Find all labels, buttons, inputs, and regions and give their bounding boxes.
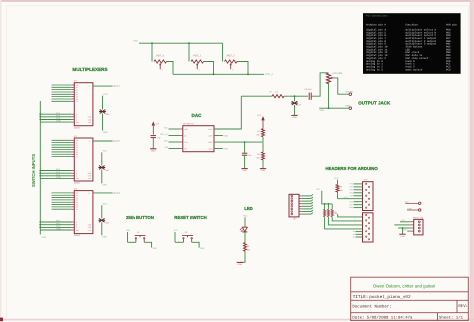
svg-text:VCC: VCC bbox=[133, 40, 138, 43]
svg-text:VCC: VCC bbox=[405, 201, 410, 204]
svg-text:10k: 10k bbox=[334, 212, 337, 215]
wire LED1 to R8 bbox=[244, 232, 246, 243]
wire JP2 pin nets with labels bbox=[349, 183, 363, 210]
svg-text:OUTPUT JACK: OUTPUT JACK bbox=[358, 100, 391, 105]
svg-text:2: 2 bbox=[199, 68, 200, 71]
title block frame and text bbox=[351, 277, 469, 320]
wire bar to R11 top bbox=[327, 204, 329, 210]
capacitor C4 0.1uF plates bbox=[151, 136, 156, 138]
junction dot at POT_0 feed bbox=[151, 42, 153, 44]
wire R10 to JP3 row bbox=[325, 217, 363, 229]
svg-text:VCC: VCC bbox=[257, 114, 262, 117]
wire JP4 pin3 GND bbox=[398, 227, 410, 229]
potentiometer POT_1 wiper arrow bbox=[196, 63, 198, 69]
resistor R6 lower bbox=[262, 152, 265, 160]
wire bar to R12 top bbox=[331, 204, 333, 210]
junction dot JP4 gnd bbox=[402, 227, 404, 229]
wire junction to ground JP4 bbox=[402, 228, 404, 234]
svg-text:INT1: INT1 bbox=[344, 196, 348, 199]
svg-text:GND: GND bbox=[242, 169, 247, 172]
wire JP1 pin nets with hooks bbox=[299, 194, 313, 214]
ground symbol at R6 bbox=[260, 168, 266, 170]
svg-text:VCC: VCC bbox=[243, 214, 248, 217]
svg-text:Arduino pin #: Arduino pin # bbox=[366, 23, 386, 26]
svg-text:DAC: DAC bbox=[192, 113, 203, 118]
resistor R12 pull bbox=[331, 209, 333, 216]
svg-text:A0: A0 bbox=[353, 230, 355, 233]
svg-text:REV:: REV: bbox=[458, 304, 468, 309]
ground symbol at C5 bbox=[241, 168, 247, 170]
svg-text:GND: GND bbox=[56, 120, 61, 123]
wire R6 to ground bbox=[262, 160, 264, 168]
pin names IC1 A/B/C/INH bbox=[76, 113, 80, 124]
potentiometer VOLUME wiper arrow bbox=[330, 77, 335, 79]
wire POT_1 right terminal down bbox=[204, 62, 214, 75]
wire capacitor C3 to GND bbox=[101, 222, 103, 235]
junction dot POT_1 bottom bbox=[213, 73, 215, 75]
wire R7 to C6 junction bbox=[284, 95, 308, 97]
wire VCC drop to POT_0 bbox=[151, 43, 153, 61]
potentiometer POT_2 element bbox=[225, 60, 237, 63]
capacitor C1 10uF (polarized) bbox=[99, 110, 106, 114]
svg-text:MCP4921-E: MCP4921-E bbox=[183, 122, 195, 125]
wire VCC to R9 bbox=[337, 180, 339, 185]
wire R9 to JP2 pin bbox=[337, 192, 339, 199]
svg-text:Sheet: 1/1: Sheet: 1/1 bbox=[439, 315, 464, 320]
svg-text:GND: GND bbox=[261, 169, 266, 172]
svg-text:GND: GND bbox=[103, 131, 108, 134]
svg-text:R5: R5 bbox=[257, 130, 259, 133]
svg-text:AVR pin: AVR pin bbox=[446, 23, 457, 26]
wire capacitor C1 to GND bbox=[102, 114, 104, 131]
svg-text:PD0: PD0 bbox=[350, 183, 354, 186]
svg-text:LED: LED bbox=[244, 206, 253, 211]
svg-text:SCK: SCK bbox=[164, 140, 169, 143]
resistor R10 pull bbox=[324, 209, 326, 216]
svg-text:20k: 20k bbox=[257, 157, 260, 160]
svg-text:HEADERS FOR ARDUINO: HEADERS FOR ARDUINO bbox=[325, 166, 378, 171]
wire U2 VREF net bbox=[214, 141, 262, 143]
wire JP4 pin1 VCC bbox=[400, 221, 410, 223]
svg-text:RESET SWITCH: RESET SWITCH bbox=[174, 215, 206, 220]
svg-text:analog in 3: analog in 3 bbox=[366, 68, 383, 71]
svg-text:DAC_CS: DAC_CS bbox=[160, 133, 169, 136]
pin VCC single bbox=[419, 202, 421, 204]
svg-text:VCC: VCC bbox=[103, 203, 108, 206]
svg-text:PD7: PD7 bbox=[350, 203, 354, 206]
junction dots on bus at IC3 selects bbox=[39, 221, 41, 228]
svg-text:SOUND: SOUND bbox=[345, 90, 353, 93]
junction dot volume gnd bbox=[328, 107, 330, 109]
svg-text:GND: GND bbox=[345, 104, 350, 107]
svg-text:10k: 10k bbox=[340, 189, 343, 192]
svg-text:GND: GND bbox=[200, 247, 205, 250]
ground symbol at LED1 bbox=[237, 261, 243, 263]
junction dot bar a bbox=[324, 203, 326, 205]
wire to GND pin bbox=[407, 209, 419, 211]
connector JP1 body bbox=[289, 194, 299, 217]
resistor R5 upper bbox=[262, 129, 265, 137]
capacitor C3 10uF (polarized) bbox=[98, 218, 105, 222]
wire bar to R10 top bbox=[324, 204, 326, 210]
wire capacitor C2 to GND bbox=[101, 170, 103, 184]
connector JP3 body bbox=[363, 213, 374, 242]
svg-text:TITLE:: TITLE: bbox=[353, 295, 368, 300]
wire VOLUME wiper to SOUND pin bbox=[335, 78, 349, 94]
power symbol VCC arrow at C4 bbox=[152, 121, 155, 134]
wire POT_2 right terminal down bbox=[237, 62, 248, 75]
wire JP4 pin2 bbox=[394, 224, 410, 226]
wire VREF junction to C5 bbox=[244, 142, 246, 153]
wire GND rail to GND pin bbox=[319, 107, 349, 109]
svg-text:VCC: VCC bbox=[316, 188, 321, 191]
pin names U2 right bbox=[208, 128, 214, 151]
wire JP4 pin4 bbox=[407, 230, 410, 232]
wire to VCC pin bbox=[405, 202, 418, 204]
wire C6 to volume pot bbox=[311, 73, 328, 96]
potentiometer POT_0 wiper arrow bbox=[159, 63, 161, 69]
pin stubs JP4 bbox=[410, 222, 414, 231]
pin names IC1 VDD/VEE/VSS bbox=[88, 116, 92, 124]
capacitor C5 1uF plates bbox=[242, 153, 247, 155]
wire select bus vertical bbox=[39, 101, 41, 235]
wire select nets A/B/C/INH to IC2 bbox=[40, 168, 74, 179]
svg-text:mode switch: mode switch bbox=[406, 68, 423, 71]
svg-text:20k: 20k bbox=[257, 133, 260, 136]
svg-text:VCC: VCC bbox=[103, 150, 108, 153]
svg-text:GND: GND bbox=[56, 228, 61, 231]
svg-text:VCC: VCC bbox=[401, 219, 406, 222]
potentiometer POT_0 element bbox=[154, 60, 166, 63]
capacitor C6 series plates bbox=[309, 93, 311, 100]
wire POT_0 right terminal down bbox=[167, 62, 174, 75]
svg-text:PD4: PD4 bbox=[350, 191, 354, 194]
connector JP2 body bbox=[363, 182, 374, 211]
svg-text:R8: R8 bbox=[247, 245, 249, 248]
svg-text:OUT2: OUT2 bbox=[113, 140, 120, 143]
value label R9 10k bbox=[340, 186, 343, 192]
multiplexer IC2 4051N body bbox=[74, 138, 93, 181]
svg-text:PD2: PD2 bbox=[350, 188, 354, 191]
svg-text:LDAC: LDAC bbox=[208, 147, 213, 150]
svg-text:POT_0: POT_0 bbox=[156, 54, 165, 57]
pin names IC3 X0-X7 bbox=[76, 192, 78, 211]
pin names IC3 A/B/C/INH bbox=[76, 221, 80, 232]
pin names IC1 X0-X7 bbox=[76, 84, 78, 103]
wire U2 LDAC to GND bbox=[214, 148, 223, 150]
junction dot bar b bbox=[328, 203, 330, 205]
pin names IC3 VDD/VEE/VSS bbox=[88, 224, 92, 232]
svg-text:S2: S2 bbox=[185, 231, 187, 234]
svg-text:VREF: VREF bbox=[208, 141, 213, 144]
svg-text:R6: R6 bbox=[257, 153, 259, 156]
wire VCC drop to POT_1 bbox=[188, 43, 190, 61]
svg-text:Document Number:: Document Number: bbox=[352, 304, 391, 309]
pin GND (output jack) bbox=[349, 107, 352, 110]
svg-text:Pin Connections: Pin Connections bbox=[366, 15, 388, 18]
value label R8 330 bbox=[247, 245, 250, 252]
svg-text:S1: S1 bbox=[137, 231, 139, 234]
pin pads JP2 bbox=[366, 183, 370, 208]
svg-text:VCC: VCC bbox=[103, 93, 108, 96]
svg-text:A2: A2 bbox=[353, 236, 355, 239]
capacitor C2 10uF (polarized) bbox=[98, 166, 105, 170]
svg-text:PC3: PC3 bbox=[446, 68, 451, 71]
svg-text:2: 2 bbox=[232, 68, 233, 71]
svg-text:GND: GND bbox=[151, 149, 156, 152]
resistor R7 series bbox=[272, 95, 284, 98]
LED LED1 bbox=[240, 227, 247, 232]
wire select nets A/B/C/INH to IC3 bbox=[40, 220, 74, 231]
wire C7 to ground bbox=[294, 105, 296, 115]
pin pads JP1 bbox=[291, 195, 293, 215]
wire VCC to capacitor C1 bbox=[102, 96, 104, 110]
wire VCC feed to pull resistor bar bbox=[322, 191, 332, 204]
wire JP3 lower pin nets bbox=[353, 230, 363, 238]
svg-text:GND: GND bbox=[319, 109, 324, 112]
resistor R9 bbox=[336, 185, 339, 193]
capacitor C7 1uF (polarized) bbox=[291, 101, 298, 105]
svg-text:GND: GND bbox=[407, 207, 412, 210]
wire VREF node down to R6 bbox=[262, 142, 264, 152]
potentiometer POT_1 element bbox=[191, 60, 203, 63]
svg-text:Owen Osborn, critter and guita: Owen Osborn, critter and guitari bbox=[373, 284, 435, 289]
svg-text:OUT1: OUT1 bbox=[113, 85, 120, 88]
wire VCC to capacitor C2 bbox=[101, 152, 103, 165]
svg-text:GND: GND bbox=[349, 206, 354, 209]
wire R8 to ground bbox=[240, 251, 245, 262]
pin SOUND (output jack) bbox=[349, 93, 352, 96]
wire R11 to JP3 row bbox=[328, 217, 362, 225]
wire junction down to C7 bbox=[294, 96, 296, 101]
svg-text:Function: Function bbox=[406, 23, 419, 26]
svg-text:POT_1: POT_1 bbox=[193, 54, 202, 57]
svg-text:Date: 5/08/2008 11:04:47a: Date: 5/08/2008 11:04:47a bbox=[352, 316, 413, 321]
svg-text:A1: A1 bbox=[353, 233, 355, 236]
svg-text:SDI: SDI bbox=[165, 146, 169, 149]
wire R5 to VREF node bbox=[262, 137, 264, 142]
wire switch input bundle to IC2 (8 nets X0-X7) bbox=[52, 140, 75, 156]
junction dots on bus at IC1 selects bbox=[39, 113, 41, 120]
wire switch input bundle to IC1 (8 nets X0-X7) bbox=[52, 85, 75, 101]
ground symbol at C7 bbox=[291, 114, 297, 116]
svg-text:OUT3: OUT3 bbox=[113, 192, 120, 195]
svg-text:GND: GND bbox=[56, 176, 61, 179]
svg-text:GND: GND bbox=[224, 134, 229, 137]
svg-text:GND: GND bbox=[102, 184, 107, 187]
svg-text:GND: GND bbox=[292, 116, 297, 119]
junction dot POT_2 bottom bbox=[247, 73, 249, 75]
wire R12 to JP3 row bbox=[332, 217, 362, 221]
pin names IC2 VDD/VEE/VSS bbox=[88, 172, 92, 180]
svg-text:330: 330 bbox=[247, 248, 250, 251]
wire pots bottom shared net bbox=[173, 73, 264, 75]
ground symbol at C4 bbox=[150, 148, 156, 150]
svg-text:R7: R7 bbox=[270, 91, 272, 94]
pin pads JP3 bbox=[366, 214, 370, 240]
wire VCC drop to POT_2 bbox=[222, 43, 224, 61]
junction dot at C7 tap bbox=[294, 95, 296, 97]
svg-text:POT_2: POT_2 bbox=[227, 54, 236, 57]
potentiometer VOLUME element bbox=[327, 73, 331, 83]
ground symbol at JP4 bbox=[399, 233, 405, 235]
wire OUT3 from IC3 pin X bbox=[93, 192, 113, 194]
svg-text:GND: GND bbox=[224, 147, 229, 150]
svg-text:4051N: 4051N bbox=[74, 182, 80, 185]
connector JP4 body bbox=[414, 219, 423, 235]
svg-text:PD1: PD1 bbox=[350, 186, 354, 189]
svg-text:MULTIPLEXERS: MULTIPLEXERS bbox=[72, 67, 107, 72]
wire U2 VOUT to filter bbox=[214, 96, 241, 129]
potentiometer POT_2 wiper arrow bbox=[230, 63, 232, 69]
svg-text:25th BUTTON: 25th BUTTON bbox=[126, 215, 154, 220]
note pin-connections table bbox=[363, 13, 461, 74]
junction dots on bus at IC2 selects bbox=[39, 170, 41, 177]
svg-text:GND: GND bbox=[400, 235, 405, 238]
wire OUT1 from IC1 pin X bbox=[93, 85, 113, 87]
multiplexer IC3 4051N body bbox=[74, 191, 93, 234]
op-amp/DAC U2 body bbox=[183, 126, 214, 152]
svg-text:GND: GND bbox=[102, 236, 107, 239]
svg-text:GND: GND bbox=[152, 247, 157, 250]
wire VOLUME bottom to GND rail bbox=[328, 83, 330, 108]
pin pads JP4 bbox=[418, 221, 420, 232]
svg-text:4051N: 4051N bbox=[74, 126, 80, 129]
multiplexer IC1 4051N body bbox=[74, 83, 93, 126]
svg-text:GND: GND bbox=[238, 263, 243, 266]
svg-text:2: 2 bbox=[162, 68, 163, 71]
wire C4 to ground bbox=[152, 138, 154, 149]
svg-text:4.7k: 4.7k bbox=[275, 91, 279, 94]
wire OUT2 from IC2 pin X bbox=[93, 140, 113, 142]
svg-text:VOLUME: VOLUME bbox=[332, 72, 343, 75]
wire select nets A/B/C/INH to IC1 bbox=[40, 112, 74, 123]
svg-text:VCC: VCC bbox=[334, 177, 339, 180]
svg-text:GND: GND bbox=[42, 236, 47, 239]
pin names U2 left bbox=[184, 128, 188, 151]
svg-text:VOUT: VOUT bbox=[208, 128, 213, 131]
wire DAC left pin nets bbox=[169, 129, 183, 149]
wire stub to JP3 row 1 bbox=[338, 214, 363, 217]
svg-text:pocket_piano_v02: pocket_piano_v02 bbox=[369, 294, 411, 300]
wire VOUT filter to R7 bbox=[241, 95, 272, 97]
resistor R11 pull bbox=[327, 209, 329, 216]
svg-text:R9: R9 bbox=[340, 186, 342, 189]
svg-text:VCC: VCC bbox=[155, 122, 160, 125]
svg-text:C6 10uF: C6 10uF bbox=[305, 88, 313, 91]
pin names IC2 A/B/C/INH bbox=[76, 169, 80, 180]
junction dot at POT_1 feed bbox=[188, 42, 190, 44]
wire switch input bundle to IC3 (8 nets X0-X7) bbox=[52, 193, 75, 209]
pin GND single bbox=[419, 209, 421, 211]
svg-text:VCC: VCC bbox=[164, 127, 169, 130]
pin names IC2 X0-X7 bbox=[76, 139, 78, 158]
svg-text:4051N: 4051N bbox=[74, 234, 80, 237]
svg-text:PD5: PD5 bbox=[350, 194, 354, 197]
wire VCC to capacitor C3 bbox=[101, 205, 103, 218]
value label R7 bbox=[270, 91, 279, 94]
junction dot VREF at C5 bbox=[244, 141, 246, 143]
svg-text:PD6: PD6 bbox=[350, 200, 354, 203]
wire U2 AVSS to GND bbox=[214, 135, 223, 137]
wire VCC to LED1 bbox=[244, 217, 246, 227]
wire C5 to ground bbox=[244, 155, 246, 168]
svg-text:POT_2: POT_2 bbox=[265, 73, 273, 76]
value label R5 20k bbox=[257, 130, 260, 137]
net labels at DAC left pins bbox=[160, 127, 169, 150]
power symbol VCC arrow at R5 bbox=[261, 116, 264, 129]
value label R6 20k bbox=[257, 153, 260, 160]
svg-text:SWITCH INPUTS: SWITCH INPUTS bbox=[31, 154, 36, 187]
wire VCC rail to pots bbox=[139, 42, 223, 44]
resistor R8 bbox=[244, 243, 247, 252]
